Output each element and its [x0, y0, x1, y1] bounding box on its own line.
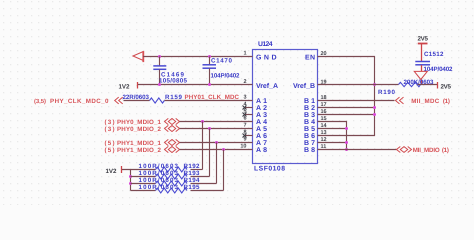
wire B1 to MII_MDC: [318, 100, 395, 102]
node junction pullup R193 tap: [208, 127, 211, 130]
power port 2V5 top: [418, 36, 429, 44]
node junction B8 bus: [345, 148, 348, 151]
wire B4 to bus: [318, 122, 347, 150]
wire EN down: [318, 57, 375, 136]
node junction C1469 top: [158, 55, 161, 58]
net label MII_MDIO: [413, 147, 449, 154]
wire PHY1_MDIO_1 to pin A7: [180, 142, 253, 144]
svg-text:104P/0402: 104P/0402: [211, 73, 241, 80]
svg-text:100R/0603: 100R/0603: [139, 163, 179, 170]
svg-text:U124: U124: [258, 41, 273, 48]
svg-text:22R/0603: 22R/0603: [123, 94, 150, 101]
svg-text:100R/0603: 100R/0603: [139, 184, 179, 191]
svg-text:C1512: C1512: [424, 51, 444, 58]
IC U124 body: [253, 41, 318, 173]
net label PHY0_MDIO_2: [105, 126, 162, 133]
wire 1V2 bus: [122, 170, 131, 191]
wire R193 vertical: [209, 129, 211, 177]
no-connect A2: [243, 106, 253, 110]
svg-text:105/0805: 105/0805: [159, 78, 188, 85]
node junction pullup R192 tap: [201, 120, 204, 123]
svg-text:PHY1_MDIO_1: PHY1_MDIO_1: [117, 140, 162, 147]
svg-text:(5): (5): [105, 140, 115, 147]
chevron bidir PHY0_MDIO_2: [165, 125, 180, 131]
wire R194 vertical: [216, 143, 218, 184]
svg-text:(3): (3): [105, 126, 115, 133]
wire PHY0_MDIO_2 to pin A5: [180, 128, 253, 130]
resistor R194: [131, 177, 217, 186]
no-connect A3: [243, 113, 253, 117]
svg-text:PHY_CLK_MDC_0: PHY_CLK_MDC_0: [50, 98, 109, 105]
wire PHY1_MDIO_2 to pin A8: [180, 149, 253, 151]
svg-text:PHY1_MDIO_2: PHY1_MDIO_2: [117, 147, 162, 154]
net label PHY1_MDIO_2: [105, 147, 162, 154]
chevron in-port PHY_CLK_MDC_0: [115, 97, 123, 104]
node junction C1470 bottom: [208, 83, 211, 86]
svg-text:PHY0_MDIO_1: PHY0_MDIO_1: [117, 119, 162, 126]
svg-text:2V5: 2V5: [441, 84, 452, 91]
svg-text:PHY0_MDIO_2: PHY0_MDIO_2: [117, 126, 162, 133]
IC U124 pin numbers: [240, 51, 327, 151]
svg-text:1: 1: [243, 51, 246, 57]
chevron bidir PHY1_MDIO_2: [165, 146, 180, 152]
svg-text:(3,5): (3,5): [34, 98, 46, 105]
svg-text:MII_MDIO: MII_MDIO: [413, 147, 440, 154]
svg-text:R193: R193: [184, 170, 201, 177]
no-connect A6: [243, 134, 253, 138]
chevron in-port MII_MDC: [396, 97, 404, 104]
svg-text:R192: R192: [184, 163, 201, 170]
wire R192 vertical: [202, 122, 204, 170]
svg-text:Vref_B: Vref_B: [293, 82, 315, 90]
svg-text:3: 3: [243, 95, 246, 101]
svg-text:MII_MDC: MII_MDC: [411, 98, 440, 105]
net label MII_MDC: [411, 98, 450, 105]
svg-text:100R/0603: 100R/0603: [139, 177, 179, 184]
wire B7 stub: [318, 142, 347, 144]
net label PHY_CLK_MDC_0: [34, 98, 109, 105]
node junction pullup R195 tap: [222, 148, 225, 151]
node junction bus R194: [129, 182, 132, 185]
off-page arrow left (GND rail): [133, 52, 143, 61]
svg-text:LSF0108: LSF0108: [254, 166, 285, 173]
node junction B7: [345, 141, 348, 144]
svg-text:R194: R194: [184, 177, 201, 184]
wire chevron to R159: [124, 100, 150, 102]
wire B3 stub: [318, 114, 375, 116]
svg-text:R190: R190: [378, 89, 396, 96]
resistor R192: [131, 163, 203, 172]
svg-text:R195: R195: [184, 184, 201, 191]
power port 1V2 upper: [119, 82, 138, 91]
wire R195 vertical: [223, 150, 225, 191]
svg-text:(1): (1): [443, 98, 450, 105]
chevron bidir PHY0_MDIO_1: [165, 118, 180, 124]
capacitor C1469: [153, 57, 187, 85]
IC U124 pin names: [256, 55, 315, 155]
resistor R193: [131, 170, 210, 179]
wire B5 stub: [318, 128, 347, 130]
wire PHY0_MDIO_1 to pin A4: [180, 121, 253, 123]
node junction B2: [373, 106, 376, 109]
svg-text:104P/0402: 104P/0402: [424, 66, 454, 73]
svg-text:GND: GND: [256, 55, 277, 62]
node junction C1470 top: [208, 55, 211, 58]
node junction bus R193: [129, 175, 132, 178]
node junction B3: [373, 113, 376, 116]
node junction B5: [345, 127, 348, 130]
capacitor C1470: [203, 57, 241, 85]
wire Vref_B: [318, 84, 399, 86]
net label PHY1_MDIO_1: [105, 140, 162, 147]
wire R159 to pin A1: [165, 100, 253, 102]
wire GND rail top: [143, 56, 253, 58]
wire B2 stub: [318, 107, 375, 109]
svg-text:1V2: 1V2: [106, 168, 118, 175]
wire 1V2 to Vref_A: [138, 84, 253, 86]
svg-text:100R/0603: 100R/0603: [139, 170, 179, 177]
svg-text:(5): (5): [105, 147, 115, 154]
svg-text:1V2: 1V2: [119, 84, 131, 91]
resistor R159: [123, 94, 183, 103]
svg-text:10: 10: [240, 144, 246, 150]
net label PHY0_MDIO_1: [105, 119, 162, 126]
svg-text:(3): (3): [105, 119, 115, 126]
svg-text:EN: EN: [305, 55, 315, 62]
resistor R190: [378, 79, 438, 96]
svg-text:(1): (1): [442, 147, 449, 154]
node junction EN/Vref_B: [373, 83, 376, 86]
wire B8 to MII_MDIO: [318, 149, 397, 151]
resistor R195: [131, 184, 224, 193]
capacitor C1512: [415, 44, 453, 74]
chevron bidir MII_MDIO: [397, 147, 412, 153]
node junction C1469 bottom: [158, 83, 161, 86]
node junction pullup R194 tap: [215, 141, 218, 144]
power port 1V2 lower: [106, 166, 122, 175]
power port 2V5 right: [438, 82, 452, 91]
svg-text:7: 7: [243, 123, 246, 129]
chevron bidir PHY1_MDIO_1: [165, 139, 180, 145]
svg-text:2V5: 2V5: [418, 36, 429, 43]
power arrow down (to Vref_B net): [414, 71, 427, 84]
svg-text:Vref_A: Vref_A: [256, 82, 278, 90]
svg-text:C1470: C1470: [211, 58, 233, 65]
